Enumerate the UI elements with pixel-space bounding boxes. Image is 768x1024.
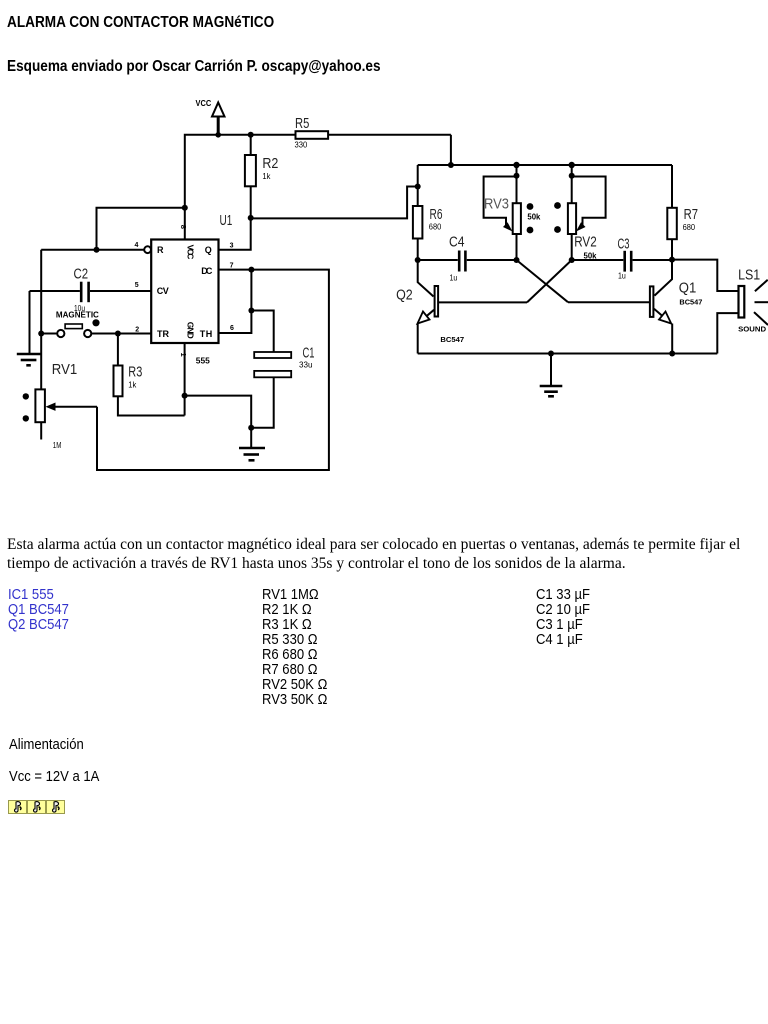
svg-text:680: 680 bbox=[683, 223, 696, 232]
svg-text:C2: C2 bbox=[74, 266, 89, 282]
ground right bbox=[540, 354, 563, 397]
svg-text:TR: TR bbox=[157, 329, 170, 339]
transistor Q2 BC547 bbox=[396, 260, 572, 354]
svg-text:6: 6 bbox=[230, 325, 234, 332]
svg-text:C3: C3 bbox=[618, 236, 630, 252]
svg-text:DC: DC bbox=[201, 266, 213, 276]
ground mid-left bbox=[239, 428, 265, 461]
svg-text:7: 7 bbox=[230, 263, 234, 270]
power Vcc symbol bbox=[196, 98, 225, 135]
svg-text:R3: R3 bbox=[128, 365, 142, 381]
potentiometer RV1 1M bbox=[23, 362, 97, 450]
wire gnd pin1 bbox=[182, 343, 255, 431]
svg-text:3: 3 bbox=[230, 243, 234, 250]
resistor R7 680 bbox=[667, 165, 698, 263]
switch MAGNETIC bbox=[38, 310, 151, 337]
svg-text:50k: 50k bbox=[584, 251, 598, 260]
svg-text:TH: TH bbox=[200, 329, 213, 339]
capacitor C2 10u bbox=[30, 266, 152, 313]
node Vcc junctions bbox=[182, 132, 254, 211]
svg-text:VCC: VCC bbox=[196, 98, 212, 108]
svg-text:RV2: RV2 bbox=[574, 234, 597, 250]
svg-text:5: 5 bbox=[135, 282, 139, 289]
paragraph bbox=[7, 536, 767, 573]
capacitor C1 33u bbox=[251, 311, 314, 428]
speaker LS1 bbox=[672, 260, 768, 354]
svg-text:RV3: RV3 bbox=[484, 197, 509, 213]
svg-text:1u: 1u bbox=[450, 274, 458, 283]
svg-text:1u: 1u bbox=[618, 272, 626, 281]
svg-text:BC547: BC547 bbox=[440, 337, 464, 344]
svg-text:CV: CV bbox=[157, 286, 169, 296]
svg-text:Q2: Q2 bbox=[396, 288, 413, 304]
svg-text:R7: R7 bbox=[684, 207, 698, 223]
resistor R6 680 bbox=[413, 165, 443, 263]
subtitle bbox=[7, 58, 381, 76]
wire pin7 DC loop bbox=[97, 267, 329, 470]
svg-text:C1: C1 bbox=[303, 346, 315, 362]
wire bottom rail right bbox=[418, 351, 718, 357]
wire top rail right bbox=[418, 162, 672, 168]
svg-text:680: 680 bbox=[429, 223, 442, 232]
svg-text:555: 555 bbox=[196, 356, 210, 366]
wire left vertical bbox=[40, 250, 42, 390]
svg-text:BC547: BC547 bbox=[679, 299, 702, 306]
wire pin6 TH bbox=[219, 270, 255, 333]
title bbox=[7, 14, 274, 32]
svg-text:RV1: RV1 bbox=[52, 362, 77, 378]
svg-text:VCC: VCC bbox=[186, 245, 196, 260]
svg-text:MAGNETIC: MAGNETIC bbox=[56, 310, 99, 320]
component list col2 bbox=[262, 587, 327, 707]
svg-text:8: 8 bbox=[179, 225, 188, 229]
svg-text:50k: 50k bbox=[527, 213, 541, 222]
alimentacion bbox=[9, 736, 84, 753]
wire left jog pin4/pin8 bbox=[94, 208, 185, 253]
resistor R2 1k bbox=[245, 135, 279, 218]
svg-text:1k: 1k bbox=[128, 380, 137, 389]
pin4 bubble bbox=[144, 246, 151, 253]
svg-text:1k: 1k bbox=[262, 172, 271, 181]
svg-text:Q: Q bbox=[205, 245, 212, 255]
svg-text:330: 330 bbox=[295, 140, 308, 149]
svg-text:4: 4 bbox=[135, 242, 139, 249]
transistor Q1 BC547 bbox=[517, 260, 703, 354]
decorative pot dots bbox=[527, 202, 561, 233]
svg-text:R5: R5 bbox=[295, 116, 309, 132]
broken-image icons bbox=[8, 800, 65, 814]
wire output to R6 rail bbox=[251, 187, 418, 219]
svg-text:R: R bbox=[157, 245, 164, 255]
svg-text:R6: R6 bbox=[430, 207, 443, 223]
IC U1 555 bbox=[135, 213, 235, 365]
potentiometer RV2 50k bbox=[568, 165, 606, 263]
svg-text:33u: 33u bbox=[299, 361, 313, 370]
svg-text:C4: C4 bbox=[449, 235, 465, 251]
svg-text:U1: U1 bbox=[220, 213, 233, 229]
capacitor C3 1u bbox=[572, 236, 672, 280]
component list col1 (blue) bbox=[8, 587, 69, 632]
component list col3 bbox=[536, 587, 590, 647]
wire pin3 to R2 bbox=[219, 215, 254, 250]
resistor R3 1k bbox=[114, 334, 185, 416]
wire pin4 bbox=[41, 249, 144, 251]
capacitor C4 1u bbox=[418, 235, 517, 283]
svg-text:LS1: LS1 bbox=[738, 267, 760, 283]
svg-text:2: 2 bbox=[135, 327, 139, 334]
svg-text:SOUND: SOUND bbox=[738, 325, 767, 334]
potentiometer RV3 50k bbox=[484, 165, 541, 263]
svg-text:1M: 1M bbox=[53, 441, 62, 450]
ground left bbox=[17, 291, 41, 365]
svg-text:GND: GND bbox=[186, 322, 196, 339]
resistor R5 330 bbox=[295, 116, 329, 149]
svg-text:R2: R2 bbox=[262, 156, 278, 172]
wire Vcc rail top bbox=[185, 135, 451, 240]
svg-text:Q1: Q1 bbox=[679, 280, 697, 296]
